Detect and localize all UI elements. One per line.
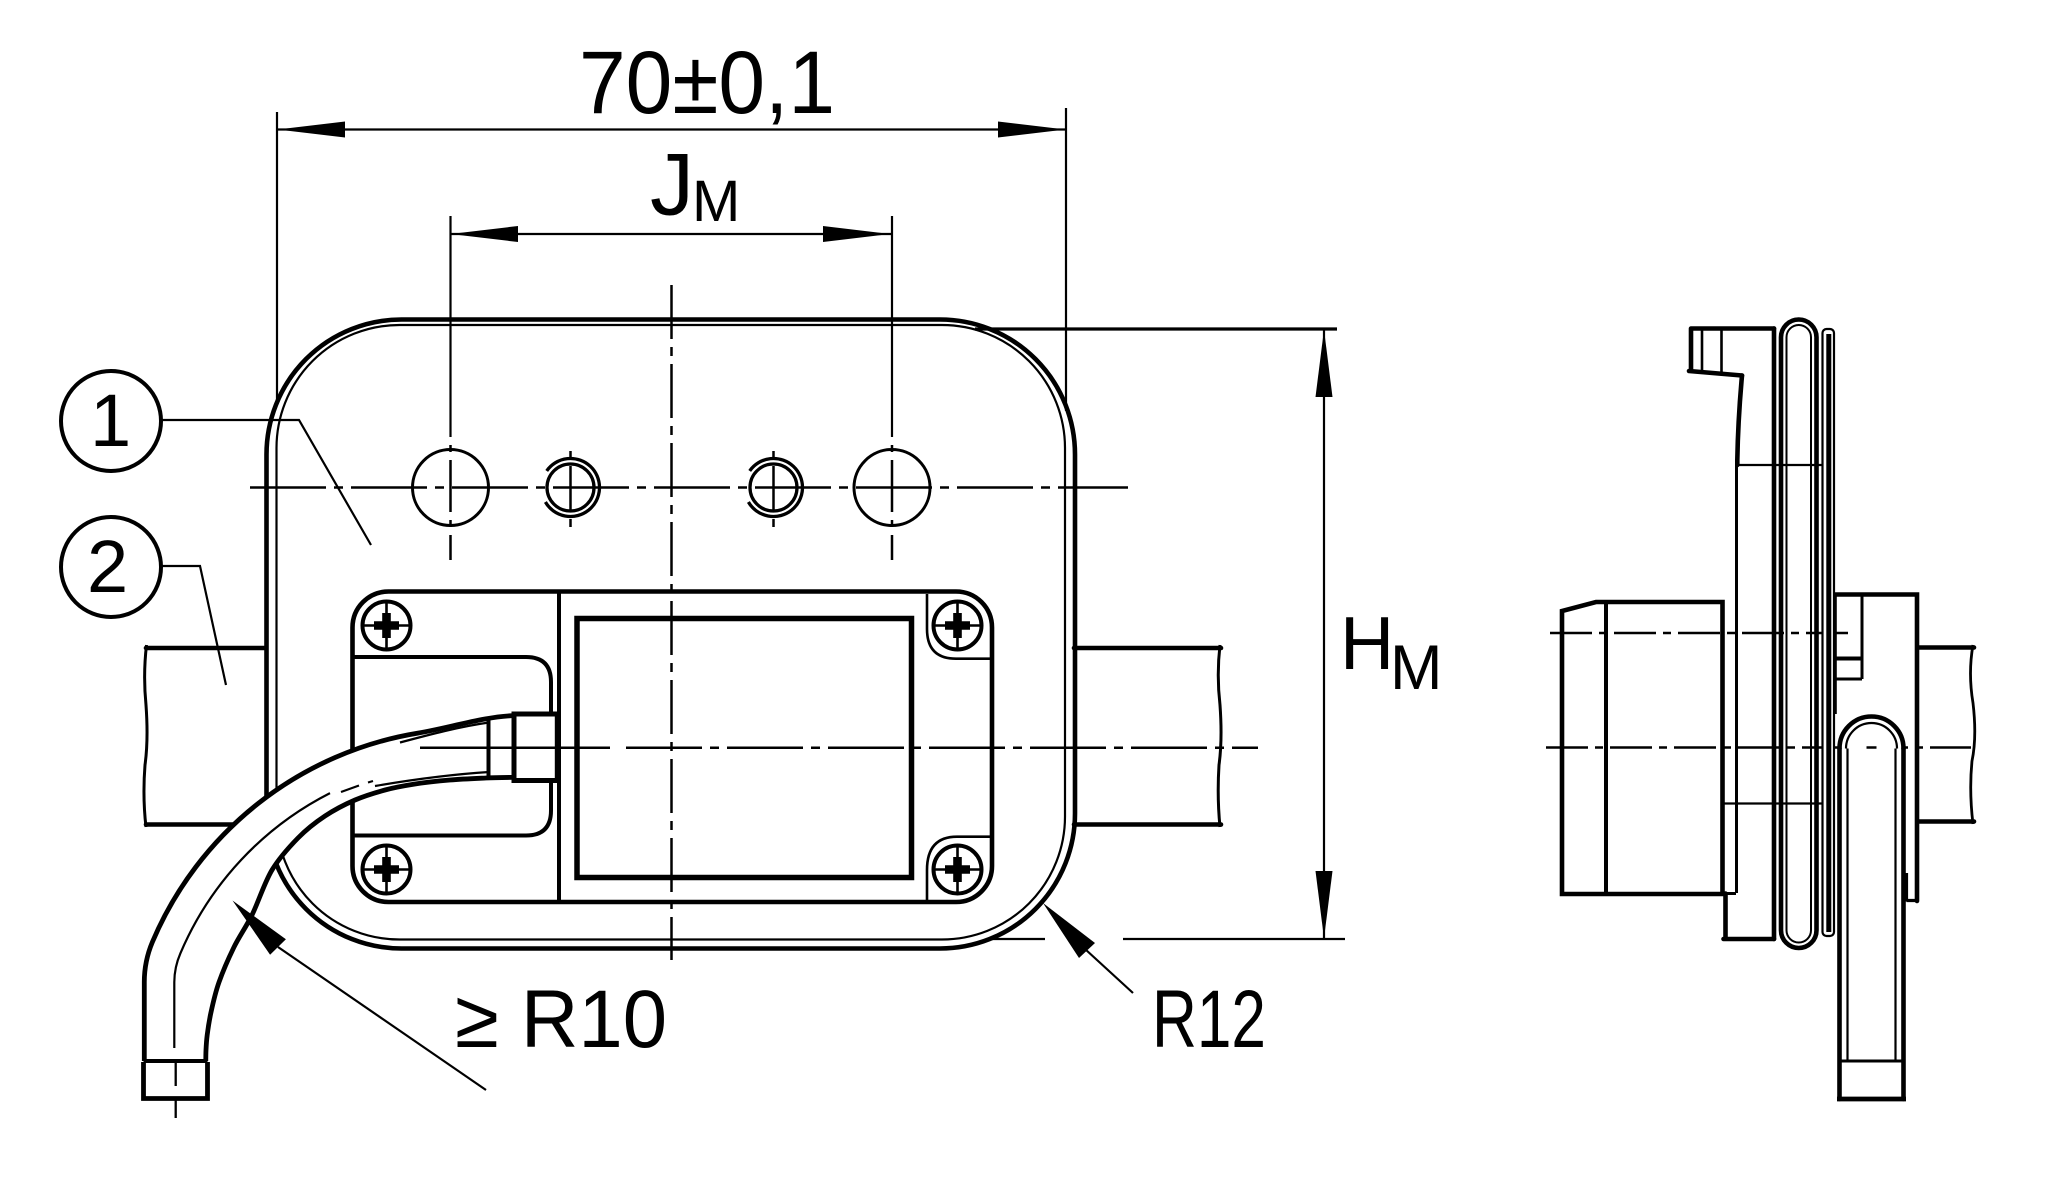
svg-text:M: M xyxy=(1390,633,1442,703)
svg-text:J: J xyxy=(650,135,694,234)
svg-text:M: M xyxy=(692,169,740,234)
svg-text:≥ R10: ≥ R10 xyxy=(455,974,667,1065)
svg-text:1: 1 xyxy=(90,379,131,462)
svg-text:70±0,1: 70±0,1 xyxy=(579,32,835,132)
svg-text:R12: R12 xyxy=(1152,974,1266,1065)
svg-text:H: H xyxy=(1340,601,1394,685)
svg-text:2: 2 xyxy=(87,525,128,608)
